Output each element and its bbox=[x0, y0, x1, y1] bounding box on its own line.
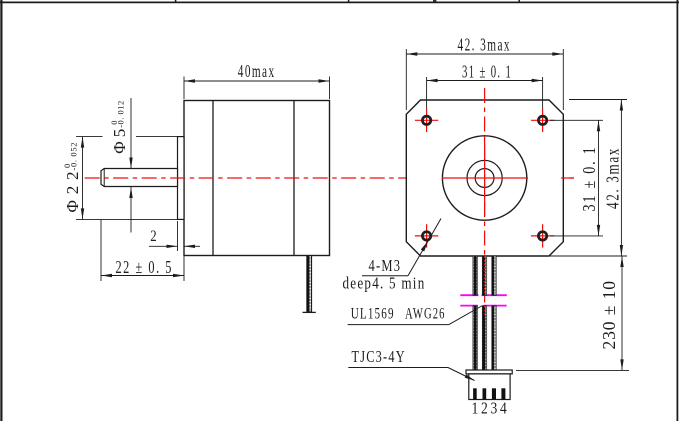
dim 42.3max right line bbox=[620, 100, 622, 257]
svg-text:-0. 052: -0. 052 bbox=[69, 143, 79, 171]
dim 40max arrow left bbox=[184, 79, 195, 82]
dim 40max extension left bbox=[183, 77, 185, 100]
dim 2 arrow left bbox=[167, 245, 178, 248]
svg-text:2: 2 bbox=[150, 228, 156, 245]
dim 42.3max arrows bbox=[406, 52, 417, 55]
magenta break line upper bbox=[460, 294, 507, 296]
mounting hole bottom-right bbox=[538, 232, 546, 240]
svg-text:4: 4 bbox=[500, 399, 507, 418]
mounting hole top-right bbox=[538, 116, 546, 124]
red vertical centerline end dash bbox=[484, 357, 486, 370]
frame: top title-block remnant line bbox=[0, 1, 679, 3]
dim 40max line bbox=[184, 80, 330, 82]
red horizontal centerline end dash bbox=[561, 177, 574, 179]
red vertical centerline bbox=[484, 88, 486, 370]
dim 40max extension right bbox=[329, 77, 331, 100]
label UL1569 leader bbox=[449, 306, 483, 325]
dim 31 right: extensions from holes bbox=[550, 119, 603, 121]
dim 2 right line bbox=[184, 245, 200, 247]
dim phi5 text bbox=[109, 101, 129, 154]
shaft chamfer line bbox=[103, 169, 105, 187]
motor front face (chamfered square) bbox=[406, 100, 563, 256]
lead wire 2 upper bbox=[482, 256, 486, 295]
svg-text:22 ± 0. 5: 22 ± 0. 5 bbox=[116, 257, 174, 277]
dim phi5 arrow upper bbox=[129, 158, 132, 169]
dim 42.3max right: extensions bbox=[569, 99, 627, 101]
magenta break line lower bbox=[460, 305, 506, 307]
dim 31 right arrows bbox=[597, 120, 600, 131]
red vertical centerline solid segment through circles bbox=[484, 140, 486, 216]
dim 230 arrows bbox=[620, 256, 623, 267]
dim 42.3max top: extensions bbox=[405, 49, 407, 110]
svg-text:40max: 40max bbox=[238, 61, 276, 81]
lead wire 1 upper bbox=[473, 256, 477, 295]
side-view lead cable bbox=[307, 256, 312, 312]
red cross hole TR bbox=[531, 109, 554, 132]
lead wire 2 lower bbox=[482, 306, 486, 370]
mounting hole bottom-left bbox=[422, 232, 430, 240]
label 4-M3 leader bbox=[408, 219, 441, 276]
svg-text:Φ22: Φ22 bbox=[63, 172, 82, 213]
connector housing bbox=[469, 374, 510, 400]
dim 2 arrow right bbox=[184, 245, 195, 248]
connector flange bbox=[466, 370, 512, 374]
dim phi22 arrow top bbox=[81, 137, 84, 148]
svg-text:deep4. 5 min: deep4. 5 min bbox=[343, 274, 426, 293]
red horizontal centerline solid segment through circles bbox=[442, 177, 528, 179]
svg-text:3: 3 bbox=[491, 399, 498, 418]
dim 42.3max top line bbox=[406, 53, 563, 55]
dim 31 top: extensions bbox=[426, 77, 428, 109]
dim phi22 text bbox=[62, 143, 82, 213]
svg-text:42. 3max: 42. 3max bbox=[603, 147, 623, 209]
label TJC3 leader bbox=[448, 368, 475, 381]
body section line 2 bbox=[293, 101, 295, 256]
connector pin 1 bbox=[473, 388, 477, 399]
dim 22 line bbox=[101, 275, 184, 277]
red cross hole BR bbox=[531, 224, 554, 247]
lead wire 3 upper bbox=[492, 256, 496, 295]
lead wire 1 lower bbox=[473, 306, 477, 370]
dim phi5 line upper bbox=[130, 98, 132, 169]
lead wire 3 lower bbox=[492, 306, 496, 370]
svg-text:1: 1 bbox=[472, 399, 479, 418]
pilot boss circle bbox=[442, 136, 526, 220]
motor body side view bbox=[184, 101, 330, 256]
dim phi22 extension top bbox=[76, 136, 103, 138]
dim phi5 line lower bbox=[130, 187, 132, 233]
frame tick 3 bbox=[518, 0, 520, 3]
dim phi22 extension bottom bbox=[76, 218, 178, 220]
red cross hole BL bbox=[415, 224, 438, 247]
svg-text:AWG26: AWG26 bbox=[405, 306, 446, 323]
dim 42.3max right text bbox=[603, 147, 623, 209]
svg-text:TJC3-4Y: TJC3-4Y bbox=[352, 347, 406, 366]
frame tick 2 bbox=[348, 0, 350, 3]
dim 42.3max right arrows bbox=[620, 100, 623, 111]
shaft bbox=[101, 169, 178, 187]
text remnant blob bbox=[433, 0, 436, 2]
label UL1569 underline bbox=[348, 324, 449, 326]
svg-text:2: 2 bbox=[481, 399, 488, 418]
bearing circle bbox=[467, 160, 502, 195]
svg-text:31 ± 0. 1: 31 ± 0. 1 bbox=[462, 62, 512, 82]
dim 31 right line bbox=[598, 120, 600, 236]
label TJC3 underline bbox=[348, 367, 448, 369]
connector pin 2 bbox=[483, 388, 487, 399]
dim 2 left line bbox=[149, 245, 178, 247]
dim 230: extension at connector bbox=[516, 369, 629, 371]
label TJC3 leader arrow bbox=[465, 374, 475, 380]
cable end tick bbox=[303, 311, 316, 313]
svg-text:230 ± 10: 230 ± 10 bbox=[599, 281, 619, 350]
label 4-M3 leader arrow bbox=[421, 241, 428, 252]
svg-text:-0. 012: -0. 012 bbox=[115, 101, 125, 128]
dim 22 extension left bbox=[100, 219, 102, 281]
mounting hole top-left bbox=[422, 116, 430, 124]
dim 31 top line bbox=[427, 80, 543, 82]
body section line 1 bbox=[212, 101, 214, 256]
dim phi5 arrow lower bbox=[129, 187, 132, 198]
svg-text:UL1569: UL1569 bbox=[351, 306, 395, 323]
dim 2 extension at boss face bbox=[177, 221, 179, 251]
shaft circle bbox=[475, 169, 494, 188]
dim 40max arrow right bbox=[319, 79, 330, 82]
frame tick 1 bbox=[175, 0, 177, 3]
dim 22 extension right (body face extended) bbox=[183, 256, 185, 282]
dim 31 top arrows bbox=[427, 79, 438, 82]
svg-text:4-M3: 4-M3 bbox=[369, 256, 402, 275]
dim phi22 line bbox=[82, 137, 84, 220]
dim 230 text bbox=[599, 281, 619, 350]
frame left border bbox=[0, 0, 2, 421]
connector pin 3 bbox=[492, 388, 496, 399]
dim 230 line bbox=[621, 256, 623, 370]
dim 22 arrow right bbox=[173, 274, 184, 277]
svg-text:42. 3max: 42. 3max bbox=[458, 35, 512, 55]
dim phi22 arrow bottom bbox=[81, 208, 84, 219]
red centerline speckles through middle wire braid bbox=[484, 257, 486, 296]
red cross hole TL bbox=[415, 109, 438, 132]
dim 22 arrow left bbox=[101, 274, 112, 277]
frame right border bbox=[676, 0, 678, 421]
red centerline (common axis) bbox=[85, 177, 574, 179]
svg-text:31 ± 0. 1: 31 ± 0. 1 bbox=[579, 146, 599, 212]
label 4-M3 underline bbox=[362, 275, 408, 277]
front boss bbox=[178, 137, 185, 220]
connector pin 4 bbox=[501, 388, 505, 399]
dim 31 right text bbox=[579, 146, 599, 212]
